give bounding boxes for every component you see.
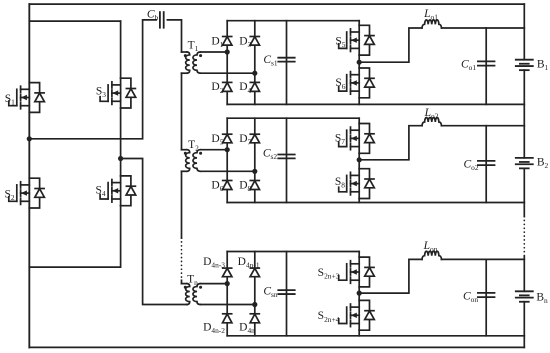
wire right rail seg5 (523, 302, 525, 348)
capacitor Cb (160, 12, 164, 28)
label S2n+3 (318, 267, 340, 281)
capacitor Co2 (478, 161, 495, 165)
transistor S5 (339, 25, 375, 55)
battery B2 (516, 158, 533, 168)
svg-text:T2: T2 (188, 139, 199, 153)
wire cell3 bottom rail (227, 335, 524, 337)
label D8 (239, 179, 251, 193)
diode D2 (223, 82, 232, 91)
svg-text:D4n-1: D4n-1 (238, 256, 260, 270)
wire cell2 Co leg (485, 126, 487, 203)
label Cs1 (263, 54, 278, 68)
label D4n-1 (238, 256, 260, 270)
svg-text:T1: T1 (188, 39, 199, 53)
node A (S1-S2 junction) (27, 136, 32, 141)
transistor S3 (100, 78, 136, 108)
capacitor Cs3 (278, 290, 294, 294)
wire cell3 switch drain (358, 252, 360, 258)
label Co1 (461, 59, 476, 73)
label T1 (188, 39, 199, 53)
svg-text:Tn: Tn (187, 273, 198, 287)
transformer T1 (182, 52, 255, 73)
wire right rail seg4 (523, 257, 525, 292)
wire cell3 Co leg (485, 259, 487, 335)
wire bottom rail (29, 346, 524, 348)
wire cell2 switch drain (358, 118, 360, 123)
wire cell2 bottom rail (227, 202, 524, 204)
label S6 (335, 77, 345, 91)
wire cell1 bottom rail (227, 103, 524, 105)
label B1 (537, 58, 549, 72)
transistor S8 (339, 169, 375, 199)
svg-text:S2n+4: S2n+4 (318, 310, 340, 324)
node cell3 switch midpoint (357, 291, 362, 296)
svg-text:Co2: Co2 (463, 159, 478, 173)
wire cell1 rectifier right leg (254, 21, 256, 105)
diode D1 (223, 37, 232, 46)
wire top rail (29, 3, 524, 5)
wire S3-S4 link (120, 108, 122, 176)
label D6 (211, 179, 223, 193)
wire bridge bottom tie (29, 206, 120, 267)
svg-text:S7: S7 (335, 133, 345, 147)
label Lo1 (423, 8, 438, 22)
diode D4n-1 (250, 268, 259, 277)
label D4n-3 (203, 256, 225, 270)
svg-text:B1: B1 (537, 58, 549, 72)
label S7 (335, 133, 345, 147)
wire right rail seg2 (523, 70, 525, 158)
label S1 (5, 93, 15, 107)
label Cs2 (263, 148, 278, 162)
wire cell3 rectifier left leg (226, 252, 228, 336)
node cell2 rect right (252, 169, 257, 174)
svg-text:Csn: Csn (263, 286, 278, 300)
capacitor Co3 (478, 293, 495, 297)
battery B1 (516, 60, 533, 70)
capacitor Cs1 (278, 58, 294, 62)
label S8 (335, 176, 345, 190)
svg-text:D4n-3: D4n-3 (203, 256, 225, 270)
wire cell2 Cs leg (286, 118, 288, 202)
label Lo2 (424, 107, 439, 121)
label S2n+4 (318, 310, 340, 324)
transistor S2n+4 (339, 300, 375, 330)
svg-text:Cs2: Cs2 (263, 148, 278, 162)
wire S2 source (28, 208, 30, 347)
svg-text:S4: S4 (95, 184, 105, 198)
node cell1 rect right (252, 71, 257, 76)
transistor S4 (100, 176, 136, 206)
wire S1 drain (28, 4, 30, 83)
svg-text:Cs1: Cs1 (263, 54, 278, 68)
transistor S2 (9, 178, 45, 208)
wire S1-S2 link (28, 112, 30, 178)
diode D5 (223, 134, 232, 143)
transistor S6 (339, 68, 375, 98)
label D1 (211, 35, 223, 49)
label D4n (239, 321, 255, 335)
wire cell3 switch mid (358, 287, 360, 301)
wire cell2 filter jog (359, 126, 422, 160)
wire cell3 rectifier right leg (254, 252, 256, 336)
wire right rail dotted (523, 217, 525, 257)
wire cell1 Co leg (485, 28, 487, 104)
svg-text:D7: D7 (239, 133, 251, 147)
wire left rail (28, 4, 30, 347)
diode D8 (250, 181, 259, 190)
inductor Lon (422, 251, 442, 259)
wire cell2 top rail (227, 117, 359, 119)
node cell3 rect right (252, 302, 257, 307)
wire cell3 Cs leg (286, 252, 288, 336)
diode D6 (223, 181, 232, 190)
wire T2 primary down (181, 171, 183, 238)
label Co3 (463, 291, 478, 305)
svg-text:D3: D3 (239, 35, 251, 49)
wire right rail seg3 (523, 168, 525, 216)
capacitor Co1 (478, 61, 495, 65)
wire cell3 filter out (442, 258, 525, 260)
wire S3 leg feed (29, 20, 120, 22)
label S2 (4, 188, 14, 202)
wire cell2 rectifier left leg (226, 118, 228, 202)
svg-text:Cb: Cb (147, 9, 159, 23)
wire right rail seg1 (523, 4, 525, 60)
wire Tn primary top lead (181, 280, 183, 283)
diode D4n (250, 314, 259, 323)
wire Cb to T1 (167, 20, 181, 52)
label Bn (536, 291, 548, 305)
label Cs3 (263, 286, 278, 300)
svg-text:Lon: Lon (423, 240, 438, 254)
capacitor Cs2 (278, 155, 294, 159)
svg-text:Lo1: Lo1 (423, 8, 438, 22)
Tn phase dots (184, 286, 202, 289)
svg-text:S2: S2 (4, 188, 14, 202)
label D3 (239, 35, 251, 49)
svg-text:Co1: Co1 (461, 59, 476, 73)
diode D3 (250, 37, 259, 46)
label D4n-2 (203, 321, 225, 335)
svg-text:S3: S3 (96, 85, 106, 99)
svg-text:B2: B2 (537, 156, 549, 170)
label Co2 (463, 159, 478, 173)
wire cell1 switch drain (358, 21, 360, 26)
wire S3 drain (120, 21, 122, 78)
wire node B to Tn (121, 159, 187, 305)
wire cell3 top rail (227, 251, 359, 253)
wire cell3 switch source (358, 330, 360, 336)
svg-text:Con: Con (463, 291, 478, 305)
svg-text:D5: D5 (211, 133, 223, 147)
label S3 (96, 85, 106, 99)
svg-text:Bn: Bn (536, 291, 548, 305)
node cell1 rect left (225, 49, 230, 54)
wire cell1 filter out (442, 27, 525, 29)
wire cell1 switch source (358, 98, 360, 105)
node cell2 rect left (225, 147, 230, 152)
diode D4n-2 (223, 314, 232, 323)
svg-text:D1: D1 (211, 35, 223, 49)
wire cell1 switch mid (358, 55, 360, 68)
transistor S2n+3 (339, 257, 375, 287)
inductor Lo1 (422, 20, 442, 28)
transistor S7 (339, 124, 375, 154)
label Cb (147, 9, 159, 23)
T1 phase dots (184, 54, 202, 57)
wire cell1 top rail (227, 20, 359, 22)
svg-text:S2n+3: S2n+3 (318, 267, 340, 281)
node cell1 switch midpoint (357, 60, 362, 65)
node cell2 switch midpoint (357, 157, 362, 162)
svg-text:S5: S5 (335, 35, 345, 49)
svg-text:S6: S6 (335, 77, 345, 91)
wire cell2 rectifier right leg (254, 118, 256, 202)
diode D7 (250, 134, 259, 143)
label S5 (335, 35, 345, 49)
label T2 (188, 139, 199, 153)
label D5 (211, 133, 223, 147)
diode D4n-3 (223, 268, 232, 277)
svg-text:S8: S8 (335, 176, 345, 190)
node B (S3-S4 junction) (118, 156, 123, 161)
wire cell3 filter jog (359, 259, 422, 293)
diode D4 (250, 82, 259, 91)
wire primary chain dotted (181, 238, 183, 280)
label Tn (187, 273, 198, 287)
wire T1-T2 primary link (181, 73, 183, 150)
wire cell1 filter jog (359, 28, 422, 62)
label D7 (239, 133, 251, 147)
node cell3 rect left (225, 281, 230, 286)
battery Bn (516, 291, 533, 301)
wire cell2 switch mid (358, 153, 360, 168)
transistor S1 (9, 83, 45, 113)
wire cell1 Cs leg (286, 21, 288, 105)
inductor Lo2 (422, 118, 442, 126)
wire cell1 rectifier left leg (226, 21, 228, 105)
label S4 (95, 184, 105, 198)
svg-text:S1: S1 (5, 93, 15, 107)
transformer Tn (182, 284, 255, 305)
wire cell2 filter out (442, 125, 525, 127)
label B2 (537, 156, 549, 170)
T2 phase dots (184, 152, 202, 155)
svg-text:Lo2: Lo2 (424, 107, 439, 121)
wire node A to Cb (29, 20, 156, 139)
label D4 (239, 81, 251, 95)
wire cell2 switch source (358, 199, 360, 203)
label D2 (211, 81, 223, 95)
label Lon (423, 240, 438, 254)
transformer T2 (182, 150, 255, 172)
